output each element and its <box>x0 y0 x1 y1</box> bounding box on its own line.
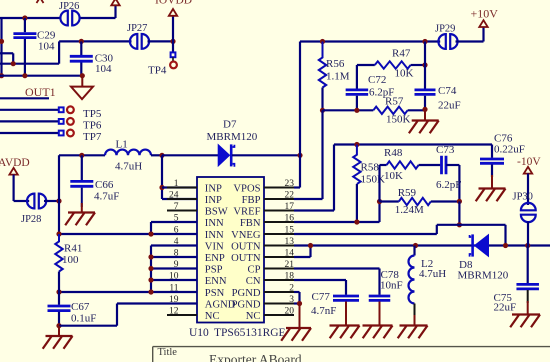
svg-text:22: 22 <box>285 190 295 200</box>
svg-text:15: 15 <box>285 225 295 235</box>
wire PSN bus <box>59 291 197 293</box>
svg-text:NC: NC <box>205 311 220 322</box>
wire PSP pin9 <box>151 267 197 269</box>
node L1/D7/INP <box>159 153 164 158</box>
ground PGND <box>299 304 301 329</box>
svg-text:AVDD: AVDD <box>0 157 30 169</box>
wire JP27 to TP4 <box>148 40 174 42</box>
wire VNEG <box>294 233 437 235</box>
pin 21 CP stub <box>264 268 294 270</box>
pin 23 VPOS stub <box>264 187 294 189</box>
svg-text:1: 1 <box>174 179 179 189</box>
svg-text:ENP: ENP <box>205 253 225 264</box>
power +10V <box>456 40 484 42</box>
node JP29 <box>422 39 427 44</box>
svg-text:OUT1: OUT1 <box>25 85 56 99</box>
svg-text:104: 104 <box>38 41 55 53</box>
pin 12 NC stub <box>167 314 197 316</box>
wire INN bus <box>59 233 197 235</box>
svg-text:7: 7 <box>174 202 179 212</box>
resistor R41 <box>55 234 62 272</box>
pin 2 PGND stub <box>264 291 294 293</box>
wire VREF rail <box>334 143 492 145</box>
svg-text:0.1uF: 0.1uF <box>71 313 96 325</box>
svg-text:C77: C77 <box>312 291 331 303</box>
capacitor C75 <box>527 246 529 284</box>
node <box>0 39 4 44</box>
title block border <box>153 346 550 348</box>
wire IOVDD top <box>0 17 62 19</box>
wire AVDD vertical <box>58 155 60 234</box>
capacitor C74 <box>415 89 436 92</box>
diode D8 MBRM120 <box>475 235 489 257</box>
svg-text:TP4: TP4 <box>148 65 167 77</box>
svg-text:CP: CP <box>248 265 261 276</box>
node <box>148 289 153 294</box>
node INP pin1 <box>159 185 164 190</box>
wire JP30 to OUTN <box>527 222 529 246</box>
wire +10V rail <box>300 40 440 42</box>
capacitor C30 <box>80 41 82 55</box>
jumper JP28 <box>27 194 34 209</box>
power IOVDD <box>172 16 174 42</box>
svg-text:NC: NC <box>246 311 261 322</box>
node C73/R59 <box>457 199 462 204</box>
node VNEG/OUTN <box>503 243 508 248</box>
svg-text:TP6: TP6 <box>83 120 102 132</box>
node R56 bottom <box>320 108 325 113</box>
svg-text:ENN: ENN <box>205 276 227 287</box>
wire FBP to feedback <box>294 198 323 200</box>
node <box>80 73 85 78</box>
svg-text:12: 12 <box>169 306 179 316</box>
ground C67 <box>58 326 60 336</box>
svg-text:22uF: 22uF <box>494 302 517 314</box>
ground C76 <box>491 175 493 189</box>
svg-text:BSW: BSW <box>205 207 228 218</box>
svg-text:JP30: JP30 <box>513 192 533 203</box>
svg-text:TP5: TP5 <box>83 108 102 120</box>
svg-text:PSP: PSP <box>205 265 223 276</box>
power +5V cropped symbol <box>37 0 44 3</box>
wire +10V cap branch <box>424 42 426 89</box>
jumper JP26 <box>60 11 67 26</box>
svg-text:INP: INP <box>205 184 222 195</box>
pin 13 OUTN stub <box>264 245 294 247</box>
ground C74 <box>424 109 426 120</box>
svg-text:R58: R58 <box>361 162 380 174</box>
pin 5 INN stub <box>167 221 197 223</box>
svg-text:C66: C66 <box>95 179 114 191</box>
svg-text:21: 21 <box>285 260 295 270</box>
pin 16 FBN stub <box>264 221 294 223</box>
wire VREF riser <box>333 145 335 211</box>
resistor R58 <box>353 145 360 185</box>
svg-text:VREF: VREF <box>233 207 260 218</box>
svg-text:10K: 10K <box>395 68 414 80</box>
pin 18 CN stub <box>264 279 294 281</box>
svg-text:CN: CN <box>246 276 261 287</box>
svg-text:10nF: 10nF <box>380 280 403 292</box>
power symbol top-left (cropped) <box>111 0 119 5</box>
svg-text:JP29: JP29 <box>435 24 455 35</box>
wire PGND pins 2,3 <box>294 291 300 293</box>
ground C78 <box>379 302 381 326</box>
jumper JP30 <box>521 203 536 210</box>
svg-text:INN: INN <box>205 218 224 229</box>
svg-text:100: 100 <box>62 254 79 266</box>
node PGND <box>297 301 302 306</box>
wire node to D7 <box>162 154 218 156</box>
svg-text:150K: 150K <box>386 114 411 126</box>
svg-text:FBP: FBP <box>242 195 261 206</box>
wire OUTN rail <box>294 244 550 246</box>
svg-text:0.22uF: 0.22uF <box>494 144 525 156</box>
svg-text:TPS65131RGE: TPS65131RGE <box>214 327 286 339</box>
svg-text:4.7nF: 4.7nF <box>311 305 336 317</box>
svg-text:INN: INN <box>205 230 224 241</box>
wire INP vertical <box>161 155 163 199</box>
node C29 top junction <box>22 15 27 20</box>
capacitor C29 <box>24 18 26 32</box>
diode D7 MBRM120 <box>218 145 229 166</box>
node R58 bottom <box>354 219 359 224</box>
svg-text:4.7uF: 4.7uF <box>94 191 119 203</box>
jumper JP27 <box>130 34 137 49</box>
resistor R47 <box>375 61 411 68</box>
svg-text:R56: R56 <box>326 58 345 70</box>
pin 10 ENN stub <box>167 279 197 281</box>
svg-text:R59: R59 <box>398 187 417 199</box>
svg-text:17: 17 <box>285 202 295 212</box>
pin 1 INP stub <box>167 187 197 189</box>
svg-text:-10V: -10V <box>517 156 541 168</box>
wire stub left <box>0 52 13 54</box>
node OUTN tie <box>308 243 313 248</box>
svg-text:2: 2 <box>289 283 294 293</box>
pin 9 PSP stub <box>167 268 197 270</box>
node <box>148 254 153 259</box>
svg-text:150K: 150K <box>361 174 386 186</box>
svg-text:18: 18 <box>285 271 295 281</box>
node <box>148 266 153 271</box>
net label OUT1 <box>0 97 49 99</box>
svg-text:IOVDD: IOVDD <box>155 0 192 7</box>
svg-text:23: 23 <box>285 179 295 189</box>
ground C75 <box>527 301 529 315</box>
pin 17 VREF stub <box>264 210 294 212</box>
svg-text:VPOS: VPOS <box>233 184 260 195</box>
svg-text:14: 14 <box>285 248 295 258</box>
node C74 bottom <box>422 107 427 112</box>
wire pin1 <box>162 186 197 188</box>
svg-text:104: 104 <box>95 63 112 75</box>
svg-text:Title: Title <box>158 347 178 358</box>
svg-text:Exporter ABoard: Exporter ABoard <box>209 352 302 362</box>
svg-text:24: 24 <box>169 190 179 200</box>
wire INN pin5 <box>151 221 197 223</box>
svg-text:JP28: JP28 <box>21 214 41 225</box>
pin 24 INP stub <box>167 198 197 200</box>
svg-text:VNEG: VNEG <box>231 230 261 241</box>
svg-text:C73: C73 <box>436 144 455 156</box>
svg-text:MBRM120: MBRM120 <box>207 131 258 143</box>
svg-text:D7: D7 <box>223 119 237 131</box>
node R47 right <box>422 62 427 67</box>
svg-text:+10V: +10V <box>471 7 499 21</box>
node R41 top <box>56 231 61 236</box>
node C67 ground <box>56 323 61 328</box>
svg-text:C67: C67 <box>71 301 90 313</box>
node R58 top <box>354 142 359 147</box>
wire IOVDD2 horizontal <box>0 63 59 65</box>
svg-text:OUTN: OUTN <box>231 242 261 253</box>
node L2 top <box>413 243 418 248</box>
resistor R59 <box>380 200 399 202</box>
wire left-edge vertical <box>0 18 2 76</box>
ground below C30 <box>81 76 83 87</box>
svg-text:PSN: PSN <box>205 288 225 299</box>
node JP28 <box>56 198 61 203</box>
test point TP6 <box>0 120 59 122</box>
svg-text:JP27: JP27 <box>127 23 147 34</box>
node FBN junction <box>377 199 382 204</box>
svg-text:OUTN: OUTN <box>231 253 261 264</box>
wire pin24 <box>162 198 197 200</box>
node R56 top <box>320 39 325 44</box>
pin 22 FBP stub <box>264 198 294 200</box>
svg-text:PGND: PGND <box>232 288 261 299</box>
node C72 bottom <box>354 108 359 113</box>
svg-text:22uF: 22uF <box>438 100 461 112</box>
test point TP7 <box>0 132 59 134</box>
inductor L1 <box>105 150 151 156</box>
IC U10 TPS65131RGE <box>197 177 264 323</box>
svg-text:MBRM120: MBRM120 <box>458 270 509 282</box>
svg-text:1.1M: 1.1M <box>326 71 350 83</box>
pin 3 PGND stub <box>264 303 294 305</box>
pin 14 OUTN stub <box>264 256 294 258</box>
svg-text:FBN: FBN <box>240 218 261 229</box>
inductor L2 <box>413 246 415 256</box>
svg-text:13: 13 <box>285 237 295 247</box>
wire to JP27 <box>58 41 60 63</box>
svg-text:1.24M: 1.24M <box>395 204 424 216</box>
resistor R56 <box>319 42 326 88</box>
wire enable bus vertical <box>150 246 152 293</box>
jumper JP29 <box>438 34 445 49</box>
wire ground bus <box>0 75 82 77</box>
svg-text:L1: L1 <box>116 139 128 151</box>
svg-text:R48: R48 <box>384 147 403 159</box>
svg-text:C72: C72 <box>368 74 386 86</box>
node VPOS riser <box>297 153 302 158</box>
ground below C66 <box>81 203 83 213</box>
svg-text:U10: U10 <box>189 327 209 339</box>
svg-text:3: 3 <box>289 295 294 305</box>
node C66 top <box>79 153 84 158</box>
ground L2 <box>414 315 416 326</box>
wire VPOS riser <box>299 42 301 188</box>
capacitor C76 <box>491 145 493 158</box>
wire FBN <box>294 221 380 223</box>
wire feedback R57 rail <box>323 109 374 111</box>
wire to VNEG rail <box>458 201 460 224</box>
svg-text:4.7uH: 4.7uH <box>115 161 142 173</box>
capacitor C67 <box>58 292 60 305</box>
svg-text:4.7uH: 4.7uH <box>419 268 446 280</box>
test point TP5 <box>0 109 59 111</box>
node R41 bottom <box>56 289 61 294</box>
node <box>148 277 153 282</box>
svg-text:C74: C74 <box>438 85 457 97</box>
pin 4 VIN stub <box>167 245 197 247</box>
wire D7 to VPOS node <box>232 154 300 156</box>
wire AVDD horizontal to L1 <box>59 154 105 156</box>
node <box>0 73 4 78</box>
svg-text:TP7: TP7 <box>83 131 102 143</box>
svg-text:INP: INP <box>205 195 222 206</box>
svg-text:10K: 10K <box>384 170 403 182</box>
wire VIN pin4 <box>151 244 197 246</box>
svg-text:R47: R47 <box>392 48 411 60</box>
capacitor C78 <box>369 295 391 298</box>
pin 7 BSW stub <box>167 210 197 212</box>
svg-text:PGND: PGND <box>232 300 261 311</box>
capacitor C77 <box>333 295 359 298</box>
resistor R48 <box>378 165 380 202</box>
svg-text:6.2pF: 6.2pF <box>369 87 394 99</box>
svg-text:JP26: JP26 <box>59 1 79 12</box>
pin 6 INN stub <box>167 233 197 235</box>
wire ENN pin10 <box>151 279 197 281</box>
svg-text:R41: R41 <box>64 243 82 255</box>
pin 8 ENP stub <box>167 256 197 258</box>
node JP30 bottom <box>525 243 530 248</box>
wire JP28 to node <box>44 200 59 202</box>
pin 15 VNEG stub <box>264 233 294 235</box>
svg-text:16: 16 <box>285 213 295 223</box>
wire ENP pin8 <box>151 256 197 258</box>
wire CP <box>294 267 380 269</box>
node C30 top <box>79 39 84 44</box>
test point TP4 <box>172 41 174 52</box>
capacitor C66 <box>81 155 83 180</box>
node VNEG link <box>457 222 462 227</box>
pin 11 PSN stub <box>167 291 197 293</box>
resistor R57 <box>373 107 407 114</box>
wire CN <box>294 279 346 281</box>
node TP4 <box>170 39 175 44</box>
node <box>22 73 27 78</box>
capacitor C72 <box>357 64 375 66</box>
pin 19 AGND stub <box>167 303 197 305</box>
node <box>11 61 16 66</box>
ground C77 <box>345 302 347 326</box>
capacitor C73 <box>440 156 443 175</box>
wire AGND pin19 <box>117 302 197 304</box>
svg-text:6.2pF: 6.2pF <box>436 179 461 191</box>
svg-text:20: 20 <box>285 306 295 316</box>
node INN <box>148 231 153 236</box>
pin 20 NC stub <box>264 314 294 316</box>
svg-text:VIN: VIN <box>205 242 224 253</box>
wire OUTN pin14 <box>294 256 311 258</box>
